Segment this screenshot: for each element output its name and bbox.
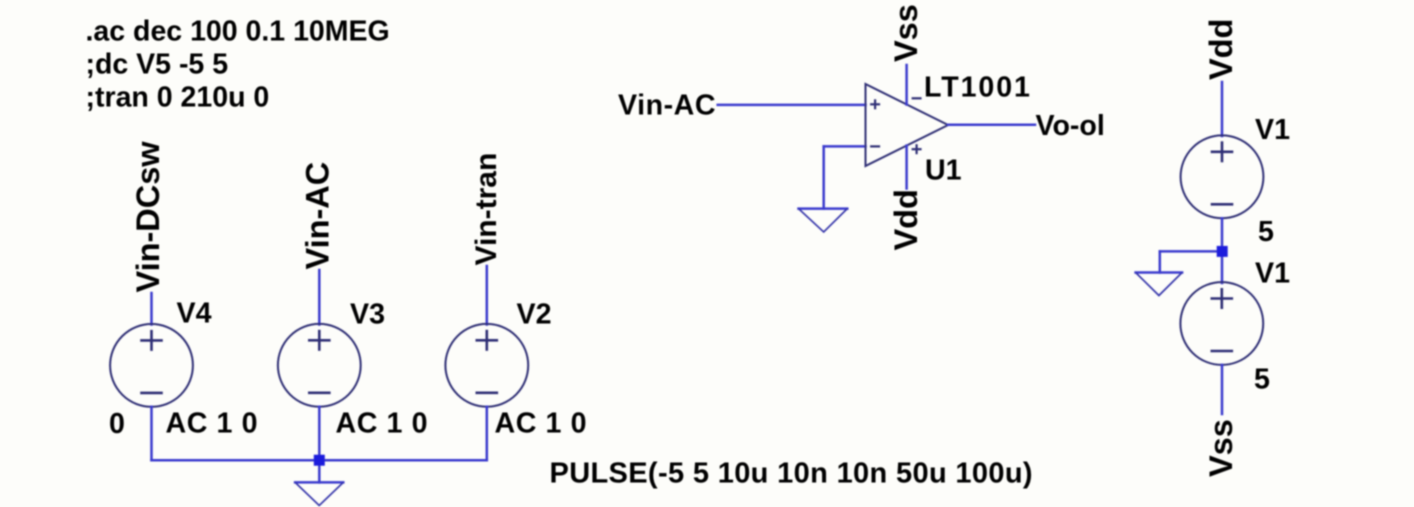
wire <box>905 65 908 105</box>
svg-text:0: 0 <box>109 408 125 440</box>
wire <box>1160 250 1222 253</box>
voltage source V1 (bottom) <box>1180 282 1263 365</box>
svg-text:V2: V2 <box>517 299 552 331</box>
svg-text:Vin-DCsw: Vin-DCsw <box>130 141 166 293</box>
svg-text:5: 5 <box>1258 216 1274 248</box>
voltage source V3 <box>278 324 361 407</box>
ground <box>295 482 343 505</box>
ground <box>799 209 848 232</box>
svg-text:LT1001: LT1001 <box>924 72 1032 104</box>
wire <box>1221 365 1224 414</box>
voltage source V1 (top) <box>1181 135 1264 218</box>
wire <box>905 146 908 189</box>
svg-text:Vdd: Vdd <box>888 189 924 250</box>
wire <box>318 460 321 482</box>
svg-text:.ac dec 100 0.1 10MEG: .ac dec 100 0.1 10MEG <box>86 16 390 48</box>
svg-text:V1: V1 <box>1255 258 1290 290</box>
svg-text:AC 1 0: AC 1 0 <box>336 408 429 440</box>
svg-text:5: 5 <box>1254 364 1270 396</box>
svg-text:Vin-AC: Vin-AC <box>618 90 716 122</box>
svg-text:Vo-ol: Vo-ol <box>1036 110 1105 142</box>
wire bus <box>152 459 487 462</box>
svg-text:PULSE(-5 5 10u 10n 10n 50u 100: PULSE(-5 5 10u 10n 10n 50u 100u) <box>550 458 1033 490</box>
wire <box>486 407 489 461</box>
svg-text:;tran 0 210u 0: ;tran 0 210u 0 <box>86 81 270 113</box>
op-amp U1 <box>866 84 949 166</box>
svg-text:V3: V3 <box>350 299 385 331</box>
svg-text:AC 1 0: AC 1 0 <box>166 408 259 440</box>
wire <box>318 270 321 325</box>
svg-text:Vss: Vss <box>1203 419 1239 477</box>
voltage source V2 <box>445 324 528 407</box>
ground <box>1136 273 1183 296</box>
wire <box>150 407 153 460</box>
svg-text:V4: V4 <box>177 298 212 330</box>
svg-text:U1: U1 <box>925 155 962 187</box>
wire <box>150 293 153 325</box>
svg-text:V1: V1 <box>1255 114 1290 146</box>
svg-text:AC 1 0: AC 1 0 <box>495 408 588 440</box>
wire <box>824 145 866 148</box>
wire <box>1221 218 1224 283</box>
svg-text:Vin-AC: Vin-AC <box>299 162 335 270</box>
wire <box>718 104 866 107</box>
voltage source V4 <box>110 324 193 407</box>
wire <box>1159 251 1162 272</box>
wire <box>822 146 825 208</box>
junction <box>1217 246 1228 257</box>
junction <box>314 455 325 466</box>
svg-text:Vss: Vss <box>888 4 924 62</box>
wire <box>486 266 489 325</box>
wire <box>948 123 1035 126</box>
svg-text:Vin-tran: Vin-tran <box>470 153 503 266</box>
svg-text:Vdd: Vdd <box>1203 19 1239 80</box>
wire <box>1221 82 1224 136</box>
svg-text:;dc V5 -5 5: ;dc V5 -5 5 <box>86 49 229 81</box>
wire <box>318 407 321 461</box>
